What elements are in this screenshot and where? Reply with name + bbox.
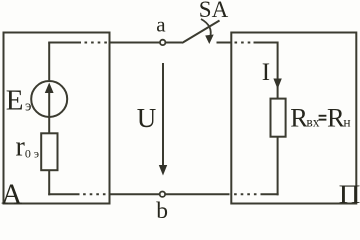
wire source E to resistor r0 bbox=[48, 117, 50, 134]
svg-text:R: R bbox=[327, 103, 345, 133]
wire right branch vertical with current I bbox=[277, 42, 279, 99]
node a terminal circle bbox=[160, 40, 165, 45]
svg-text:вх: вх bbox=[306, 115, 319, 130]
svg-text:SA: SA bbox=[199, 0, 229, 22]
label equals sign bbox=[319, 115, 327, 121]
svg-text:П: П bbox=[339, 181, 360, 210]
source E internal arrowhead bbox=[45, 83, 54, 94]
switch SA blade bbox=[182, 21, 220, 44]
wire bottom-left dotted continuation bbox=[82, 193, 106, 195]
source E circle U1 bbox=[31, 81, 67, 117]
wire bottom-right inner horizontal bbox=[261, 193, 279, 195]
wire resistor r0 to bottom bbox=[48, 170, 50, 196]
svg-text:I: I bbox=[262, 59, 270, 86]
wire box P to node b bbox=[165, 193, 229, 195]
current I arrowhead bbox=[273, 79, 281, 90]
switch SA arc arrowhead bbox=[205, 35, 214, 45]
voltage U arrow shaft bbox=[162, 63, 164, 166]
voltage U arrowhead bbox=[159, 165, 167, 176]
wire bottom-right dotted continuation bbox=[230, 193, 257, 195]
wire switch contact to box P bbox=[217, 42, 233, 44]
wire top-right dotted continuation bbox=[235, 42, 254, 44]
wire top-left dotted continuation bbox=[85, 42, 109, 44]
wire bottom-left inner horizontal bbox=[48, 193, 79, 195]
svg-text:U: U bbox=[137, 103, 157, 133]
wire node a to switch pivot bbox=[166, 42, 182, 44]
wire resistor Rvx to bottom bbox=[277, 137, 279, 196]
svg-text:b: b bbox=[156, 198, 168, 220]
wire box A to node a bbox=[110, 42, 161, 44]
svg-text:Eэ: Eэ bbox=[6, 85, 32, 117]
wire top-left inner horizontal bbox=[48, 42, 81, 44]
switch SA motion arc bbox=[201, 19, 211, 38]
resistor r0 body bbox=[41, 133, 57, 170]
box A (active two-terminal network outline) bbox=[4, 33, 110, 204]
svg-text:a: a bbox=[156, 12, 166, 36]
box P (load network outline) bbox=[231, 33, 356, 204]
wire top-left inner vertical (node to source E) bbox=[48, 43, 50, 81]
svg-text:н: н bbox=[343, 115, 350, 130]
svg-text:А: А bbox=[1, 179, 22, 211]
node b terminal circle bbox=[160, 192, 165, 197]
wire top-right inner horizontal bbox=[254, 42, 278, 44]
svg-text:r0 э: r0 э bbox=[16, 131, 39, 162]
wire node b to box A bbox=[110, 193, 160, 195]
source E internal arrow shaft bbox=[48, 90, 50, 117]
resistor Rvx body bbox=[271, 99, 286, 137]
